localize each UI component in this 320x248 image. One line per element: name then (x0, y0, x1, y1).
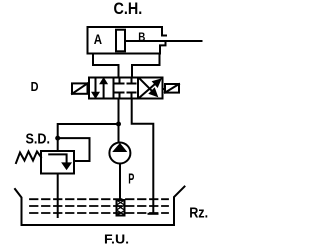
svg-text:P: P (128, 172, 134, 188)
relief valve S.D. box (41, 151, 74, 174)
svg-text:B: B (138, 30, 145, 44)
crossed arrow A-to-T (140, 79, 152, 91)
filter F.U. (117, 200, 125, 216)
wire relief valve outlet to tank (57, 174, 59, 218)
tank Rz. outline (15, 187, 185, 226)
centre box blocked port top-left (116, 78, 124, 84)
wire T return (valve to tank) (132, 99, 154, 214)
valve D right box (crossed arrows) (138, 78, 163, 99)
svg-text:C.H.: C.H. (114, 0, 143, 18)
centre box blocked port bottom-right (128, 93, 136, 99)
wire pump suction (119, 164, 121, 201)
svg-text:Rz.: Rz. (189, 204, 208, 221)
wire valve to solenoid-right (163, 88, 166, 90)
cylinder rod-end bottom hook (160, 43, 166, 54)
return pipe end bar (149, 213, 158, 215)
solenoid left (72, 83, 88, 93)
wire A-port (cylinder to valve) (93, 54, 119, 78)
svg-text:F.U.: F.U. (104, 232, 129, 247)
wire B-port (cylinder to valve) (132, 54, 160, 78)
piston (116, 30, 125, 52)
svg-text:S.D.: S.D. (26, 132, 51, 148)
tank fluid dashes row 2 (30, 205, 168, 207)
centre box blocked port top-right (128, 78, 136, 84)
svg-text:A: A (94, 31, 102, 47)
cylinder body (88, 27, 163, 54)
wire P (valve to pump) (118, 99, 120, 143)
cylinder rod-end top hook (162, 35, 166, 37)
valve D centre box (closed) (114, 78, 139, 99)
piston rod (125, 40, 202, 42)
crossed arrow P-to-B (140, 84, 156, 98)
valve D left box up-arrow (103, 83, 105, 98)
pump P (109, 143, 130, 164)
relief valve spring (16, 152, 41, 164)
filter hatching (117, 200, 125, 216)
tank fluid dashes row 1 (30, 198, 168, 200)
tank fluid dashes row 3 (30, 212, 168, 214)
valve D left box down-arrow (95, 79, 97, 94)
svg-text:D: D (31, 80, 39, 94)
relief valve internal arrow (49, 154, 66, 164)
wire P to relief valve (58, 124, 119, 151)
solenoid right (165, 84, 179, 93)
valve D left box (parallel arrows) (89, 78, 114, 99)
junction node P (116, 122, 121, 127)
wire pilot line (58, 138, 90, 161)
centre box blocked port bottom-left (116, 93, 124, 99)
junction node pilot (55, 136, 60, 141)
